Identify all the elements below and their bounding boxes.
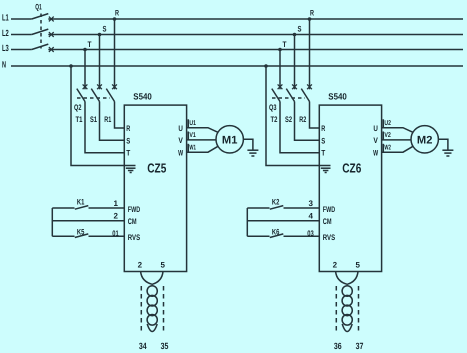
wire U output to motor M2 (382, 128, 414, 133)
fuse mark X on L1 (49, 17, 54, 22)
svg-text:K1: K1 (77, 198, 85, 207)
svg-text:FWD: FWD (128, 205, 140, 214)
wire S phase drop (unit 1) (99, 35, 101, 90)
fuse mark X on T drop (unit 1) (83, 84, 88, 89)
svg-text:Q3: Q3 (269, 103, 277, 112)
svg-text:W: W (373, 148, 378, 157)
svg-text:01: 01 (112, 229, 119, 238)
svg-text:V: V (178, 136, 183, 145)
terminal tick W (unit 1) (187, 144, 189, 152)
node R junction dot on L1 (unit 2) (308, 17, 312, 21)
breaker Q1 pole on L1 (32, 14, 49, 19)
relay contact K2 blade (270, 206, 284, 210)
svg-text:S540: S540 (328, 92, 347, 102)
earth symbol at inverter terminal (unit 2) (321, 167, 331, 169)
svg-text:CM: CM (128, 217, 137, 226)
svg-text:L3: L3 (2, 43, 9, 53)
wire N bus (11, 65, 463, 67)
svg-text:L2: L2 (2, 28, 9, 38)
svg-text:2: 2 (138, 260, 143, 269)
relay contact K1 blade (75, 206, 89, 210)
contactor Q3 pole blade R2 (301, 89, 309, 102)
wire V output to motor M1 (187, 139, 216, 141)
wire FWD line right (unit 2) (284, 207, 320, 209)
svg-text:T: T (88, 40, 92, 49)
contactor Q3 pole blade T2 (272, 89, 280, 102)
svg-text:1: 1 (114, 199, 119, 208)
svg-text:M1: M1 (222, 135, 238, 147)
svg-text:S540: S540 (133, 92, 152, 102)
wire control common rail (unit 2) (246, 208, 248, 236)
fuse mark X on R drop (unit 2) (307, 84, 312, 89)
relay contact K6 blade (270, 234, 284, 238)
svg-text:5: 5 (161, 260, 166, 269)
contactor Q2 pole blade R1 (106, 89, 114, 102)
wire CM line (unit 1) (52, 220, 124, 222)
wire analog pins 2-5 drop curve (unit 1) (141, 272, 163, 285)
terminal tick V (unit 2) (382, 132, 384, 140)
inverter box CZ6 (S540) (319, 105, 381, 271)
svg-text:CZ6: CZ6 (342, 161, 361, 176)
svg-text:T1: T1 (76, 115, 83, 124)
svg-text:CM: CM (323, 217, 332, 226)
contactor Q2 linkage dashed (77, 97, 110, 99)
wire T phase drop (unit 1) (84, 50, 86, 90)
wire motor M2 to earth (438, 139, 448, 150)
svg-text:R: R (310, 8, 314, 17)
wire L3 bus right segment (48, 49, 463, 51)
svg-text:L1: L1 (2, 13, 9, 23)
node S junction dot on L2 (unit 2) (293, 33, 297, 37)
wire U output to motor M1 (187, 128, 219, 133)
svg-text:U: U (178, 124, 183, 133)
svg-text:R: R (126, 124, 130, 133)
svg-text:Q1: Q1 (35, 3, 42, 12)
breaker Q1 pole on L2 (32, 29, 49, 34)
wire L1 bus left segment (11, 18, 32, 20)
svg-text:35: 35 (161, 341, 169, 351)
wire T2 to inverter T pin (280, 102, 319, 153)
svg-text:03: 03 (307, 229, 314, 238)
svg-text:R2: R2 (299, 115, 306, 124)
svg-text:U: U (373, 124, 378, 133)
svg-text:K6: K6 (272, 227, 280, 236)
svg-text:R1: R1 (104, 115, 111, 124)
svg-text:W2: W2 (384, 144, 391, 151)
shielded twisted pair cable (unit 1) (147, 286, 157, 332)
shield dashed line right (unit 1) (163, 286, 165, 331)
motor M1 circle (216, 126, 243, 153)
wire analog pins 2-5 drop curve (unit 2) (336, 272, 358, 285)
svg-text:S: S (103, 24, 107, 33)
svg-text:K2: K2 (272, 198, 280, 207)
node N junction dot (unit 2) (264, 64, 268, 68)
earth symbol at motor M2 (442, 149, 453, 151)
node S junction dot on L2 (unit 1) (98, 33, 102, 37)
wire W output to motor M1 (187, 146, 219, 152)
wire control common rail (unit 1) (51, 208, 53, 236)
breaker Q1 linkage dashed (40, 14, 42, 49)
svg-text:V1: V1 (189, 132, 196, 139)
wire N to inverter earth terminal (unit 2) (266, 66, 331, 166)
svg-text:RVS: RVS (128, 233, 141, 242)
wire L2 bus left segment (11, 34, 32, 36)
wire RVS line right (unit 1) (89, 235, 125, 237)
svg-text:3: 3 (309, 199, 314, 208)
svg-text:T: T (126, 149, 130, 158)
inverter box CZ5 (S540) (124, 105, 186, 271)
svg-text:M2: M2 (417, 135, 433, 147)
wire L1 bus right segment (48, 18, 463, 20)
contactor Q3 linkage dashed (272, 97, 305, 99)
svg-text:S: S (298, 24, 302, 33)
shield dashed line left (unit 1) (140, 286, 142, 331)
svg-text:5: 5 (356, 260, 361, 269)
svg-text:37: 37 (356, 341, 364, 351)
wire S1 to inverter S pin (100, 102, 125, 141)
contactor Q3 pole blade S2 (286, 89, 294, 102)
wire motor M1 to earth (243, 139, 253, 150)
wire FWD line left (unit 2) (247, 207, 269, 209)
wire L2 bus right segment (48, 34, 463, 36)
svg-text:RVS: RVS (323, 233, 336, 242)
wire FWD line right (unit 1) (89, 207, 125, 209)
svg-text:W: W (178, 148, 183, 157)
wire R phase drop (unit 1) (114, 19, 116, 89)
svg-text:T: T (321, 149, 325, 158)
node T junction dot on L3 (unit 2) (278, 48, 282, 52)
contactor Q2 pole blade T1 (77, 89, 85, 102)
svg-text:S1: S1 (90, 115, 97, 124)
fuse mark X on R drop (unit 1) (112, 84, 117, 89)
wire R2 to inverter R pin (310, 102, 320, 129)
svg-text:S: S (126, 136, 130, 145)
wire T phase drop (unit 2) (279, 50, 281, 90)
wire FWD line left (unit 1) (52, 207, 74, 209)
svg-text:S2: S2 (285, 115, 292, 124)
node N junction dot (unit 1) (69, 64, 73, 68)
fuse mark X on S drop (unit 1) (97, 84, 102, 89)
shield dashed line left (unit 2) (335, 286, 337, 331)
svg-text:4: 4 (309, 211, 314, 220)
fuse mark X on S drop (unit 2) (292, 84, 297, 89)
relay contact K5 blade (75, 234, 89, 238)
terminal tick U (unit 1) (187, 119, 189, 127)
terminal tick V (unit 1) (187, 132, 189, 140)
breaker Q1 pole on L3 (32, 44, 49, 49)
svg-text:36: 36 (334, 341, 342, 351)
wire CM line (unit 2) (247, 220, 319, 222)
svg-text:S: S (321, 136, 325, 145)
svg-text:T2: T2 (271, 115, 278, 124)
motor M2 circle (411, 126, 438, 153)
wire N to inverter earth terminal (unit 1) (71, 66, 136, 166)
node R junction dot on L1 (unit 1) (113, 17, 117, 21)
wire RVS line left (unit 2) (247, 235, 269, 237)
wire S phase drop (unit 2) (294, 35, 296, 90)
svg-text:V2: V2 (384, 132, 391, 139)
svg-text:CZ5: CZ5 (147, 161, 166, 176)
wire RVS line right (unit 2) (284, 235, 320, 237)
wire L3 bus left segment (11, 49, 32, 51)
wire R phase drop (unit 2) (309, 19, 311, 89)
svg-text:N: N (2, 60, 6, 70)
svg-text:T: T (283, 40, 287, 49)
svg-text:R: R (321, 124, 325, 133)
svg-text:U1: U1 (189, 120, 196, 127)
contactor Q2 pole blade S1 (91, 89, 99, 102)
svg-text:K5: K5 (77, 227, 85, 236)
earth symbol at inverter terminal (unit 1) (126, 167, 136, 169)
svg-text:W1: W1 (189, 144, 196, 151)
fuse mark X on L2 (49, 32, 54, 37)
terminal tick U (unit 2) (382, 119, 384, 127)
svg-text:2: 2 (333, 260, 338, 269)
wire S2 to inverter S pin (295, 102, 320, 141)
wire RVS line left (unit 1) (52, 235, 74, 237)
wire T1 to inverter T pin (85, 102, 124, 153)
wire R1 to inverter R pin (115, 102, 125, 129)
terminal tick W (unit 2) (382, 144, 384, 152)
svg-text:R: R (115, 8, 119, 17)
svg-text:34: 34 (139, 341, 147, 351)
svg-text:2: 2 (114, 211, 119, 220)
fuse mark X on T drop (unit 2) (278, 84, 283, 89)
wire V output to motor M2 (382, 139, 411, 141)
svg-text:FWD: FWD (323, 205, 335, 214)
earth symbol at motor M1 (247, 149, 258, 151)
svg-text:V: V (373, 136, 378, 145)
shield dashed line right (unit 2) (358, 286, 360, 331)
fuse mark X on L3 (49, 47, 54, 52)
node T junction dot on L3 (unit 1) (83, 48, 87, 52)
svg-text:U2: U2 (384, 120, 391, 127)
wire W output to motor M2 (382, 146, 414, 152)
shielded twisted pair cable (unit 2) (342, 286, 352, 332)
svg-text:Q2: Q2 (74, 103, 82, 112)
